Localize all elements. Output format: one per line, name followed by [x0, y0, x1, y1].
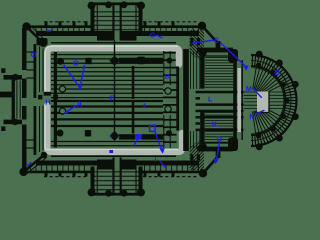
svg-text:B: B	[165, 74, 170, 81]
tick south band	[109, 150, 113, 153]
transept N inner lines	[96, 5, 98, 31]
NE corner tower	[198, 22, 206, 30]
chancel steps	[196, 91, 244, 131]
transept S west wall	[91, 167, 95, 194]
transept N top band	[89, 2, 143, 5]
apse outer wall arc	[251, 55, 297, 146]
SE chamfer wall	[203, 157, 218, 173]
south wall respond stubs	[97, 160, 113, 170]
transept south interior hatch	[95, 172, 139, 190]
band outer edge lines	[42, 49, 44, 92]
transept S east wall	[139, 167, 143, 194]
choir east wall	[233, 54, 237, 146]
transept N west wall	[91, 5, 95, 32]
dashed line below south wall	[44, 176, 88, 178]
SE vertical wall	[216, 149, 221, 159]
N colonnade pier E	[167, 58, 173, 64]
south wall outer line	[27, 171, 92, 174]
gallery band north (gray)	[47, 48, 179, 91]
facade cross ties	[27, 51, 34, 53]
west porch middle arm	[0, 92, 14, 98]
nave open column SE	[165, 106, 171, 112]
SW chamfer inner dot	[41, 152, 47, 158]
N colonnade diamond	[109, 56, 119, 66]
altar (gray)	[257, 92, 269, 113]
S colonnade pier 1	[57, 130, 64, 137]
svg-text:O: O	[31, 50, 37, 59]
north buttress ticks	[45, 21, 48, 27]
north wall outer line	[27, 25, 92, 28]
apse buttress knobs	[256, 51, 299, 151]
porch west wall	[12, 79, 15, 120]
west bay line	[54, 52, 57, 148]
porch south column dot	[12, 119, 19, 126]
nave open column NW	[59, 86, 65, 92]
SE corner tower	[199, 169, 207, 177]
S colonnade pier 2	[85, 130, 91, 136]
S colonnade pier E	[166, 130, 172, 136]
N choir stalls bar	[119, 58, 163, 64]
band-wall stubs SE	[190, 154, 193, 160]
svg-text:I: I	[155, 157, 157, 164]
NE vertical wall	[216, 41, 221, 51]
porch north column dot	[12, 74, 19, 81]
west facade inner wall	[34, 44, 37, 98]
transept N east wall	[139, 5, 143, 32]
porch hatch verticals	[16, 81, 18, 119]
transept N corner blobs	[88, 2, 96, 10]
crossing pier N	[199, 49, 207, 57]
porch SW square	[1, 126, 5, 131]
choir south wall	[197, 147, 233, 152]
svg-text:H: H	[45, 97, 50, 106]
east bay thick hatch	[163, 53, 177, 142]
svg-text:A: A	[77, 100, 83, 109]
crossing vertical hatch	[191, 52, 203, 148]
tick nave mid	[144, 103, 146, 106]
porch NW square	[1, 68, 5, 73]
apse ambulatory radial hatch	[252, 56, 296, 146]
diamond specks	[110, 136, 111, 137]
svg-text:G: G	[150, 31, 156, 40]
NW chamfer wall	[27, 27, 44, 44]
north wall inner band	[36, 31, 98, 36]
choir dense hatch	[205, 58, 233, 143]
S choir stalls bar east	[141, 134, 163, 139]
S colonnade diamond	[109, 131, 119, 141]
leader V from piers	[64, 65, 85, 88]
transept S axis lane lines	[112, 158, 114, 194]
svg-text:E: E	[214, 36, 219, 45]
SW corner tower	[19, 168, 27, 176]
svg-text:F: F	[110, 93, 115, 102]
NE chapel block	[228, 49, 238, 63]
crossing pier S	[199, 143, 207, 151]
N colonnade pier 1	[57, 58, 64, 65]
svg-text:K.: K.	[212, 120, 219, 129]
transept S bottom band	[89, 193, 143, 196]
transept S corner blobs	[88, 188, 96, 196]
svg-text:D: D	[73, 58, 79, 67]
dashed line above north wall	[44, 21, 88, 23]
label I + leader	[150, 125, 155, 131]
facade-band gap lines	[39, 47, 41, 93]
chancel screen bar (gray)	[237, 68, 241, 132]
tick north wall	[46, 30, 51, 32]
triumphal wall	[183, 49, 189, 151]
west door jambs	[38, 95, 42, 99]
apse inner arcade arc	[251, 66, 286, 135]
choir north wall	[197, 48, 233, 53]
NW chamfer inner dot	[37, 38, 48, 46]
transept north interior hatch	[95, 12, 139, 30]
south buttress ticks	[45, 171, 48, 177]
west facade outer wall	[22, 28, 27, 70]
NW corner tower	[22, 22, 30, 30]
south wall gap hatch	[31, 166, 199, 172]
nave open column NE	[165, 88, 171, 94]
band-wall stubs NE	[190, 38, 193, 46]
chancel rail line	[241, 60, 243, 140]
tick SW chamfer	[27, 162, 31, 166]
transept N mid blobs	[105, 1, 112, 8]
choir west return walls	[200, 48, 204, 89]
west porch south arm	[4, 120, 23, 125]
S choir stalls bar west	[119, 134, 136, 139]
stalls blue label	[136, 134, 141, 139]
transept S inner lines	[96, 167, 98, 193]
nave interior horizontal hatch	[51, 43, 176, 157]
NE chamfer wall	[202, 26, 217, 43]
SW chamfer wall	[24, 155, 45, 172]
nave bay verticals	[114, 41, 116, 134]
svg-text:L: L	[208, 94, 213, 103]
north wall respond stubs	[97, 31, 113, 41]
svg-text:M: M	[246, 84, 252, 93]
south wall inner band	[36, 161, 98, 166]
N stalls blob	[136, 57, 146, 65]
gallery band south (gray)	[47, 106, 182, 152]
svg-text:O: O	[274, 68, 280, 77]
apse middle arc	[251, 61, 291, 141]
transept S mid blobs	[105, 190, 112, 197]
SE chapel block	[228, 138, 238, 152]
transept N axis lane lines	[112, 5, 114, 41]
nave open column SW	[59, 108, 65, 114]
north wall gap hatch	[31, 28, 199, 32]
band end plugs	[44, 92, 51, 96]
N colonnade pier 2	[85, 58, 91, 64]
svg-text:N: N	[249, 112, 254, 121]
apse column dots	[256, 63, 290, 139]
west porch north arm	[4, 75, 23, 80]
